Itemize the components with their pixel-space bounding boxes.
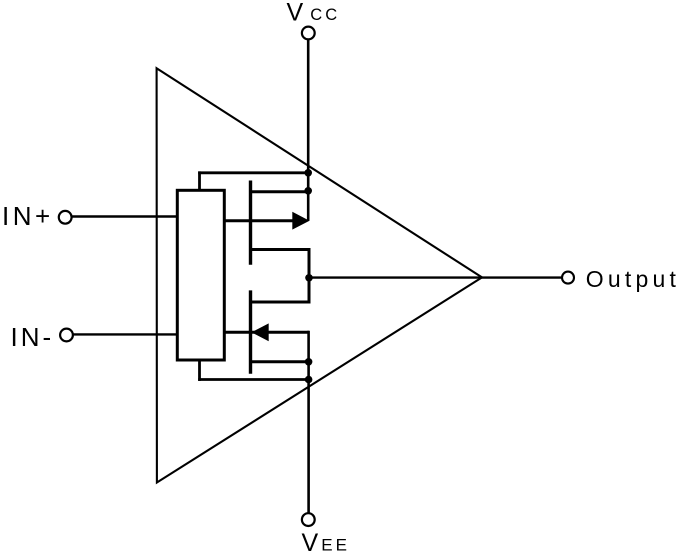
wire lower bias feed [198,378,308,381]
svg-text:V: V [302,529,319,556]
Q1 drain line [251,190,309,193]
wire VEE rail [307,331,310,513]
terminal IN- [60,329,73,342]
wire upper bias vertical [198,171,201,190]
junction upper bias [304,169,312,177]
transistor Q1 (upper output MOSFET) [224,181,309,265]
wire output node vertical [308,248,311,304]
input stage block [177,190,224,360]
Q2 drain line [251,360,309,363]
svg-text:IN+: IN+ [2,201,54,231]
Q2 source line [251,301,310,304]
op-amp A1 body [157,68,482,482]
label VEE [302,529,350,556]
svg-text:Output: Output [586,266,680,292]
junction lower bias [305,376,313,384]
Q1 source line [251,248,310,251]
Q1 gate bar [249,181,252,265]
Q1 gate drive wire [224,219,293,222]
label VCC [287,0,341,27]
svg-text:V: V [287,0,304,27]
wire lower bias vertical [198,360,201,381]
wire upper bias feed [198,171,308,174]
terminal VCC [302,27,315,40]
junction Q2 drain [305,358,313,366]
transistor Q2 (lower output MOSFET) [224,290,309,373]
terminal VEE [302,513,315,526]
Q1 arrow [292,212,309,230]
junction output node [305,274,313,282]
wire IN- [74,333,178,335]
Q2 arrow [252,323,269,341]
wire IN+ [73,215,178,217]
wire VCC rail [307,40,310,221]
terminal IN+ [59,211,72,224]
svg-text:CC: CC [310,6,340,24]
svg-text:IN-: IN- [11,322,55,352]
terminal Output [562,272,574,284]
svg-text:EE: EE [321,536,350,555]
Q2 gate bar [249,290,252,373]
junction Q1 drain [304,187,312,195]
Q2 gate drive wire [224,331,309,334]
wire output [309,276,562,278]
